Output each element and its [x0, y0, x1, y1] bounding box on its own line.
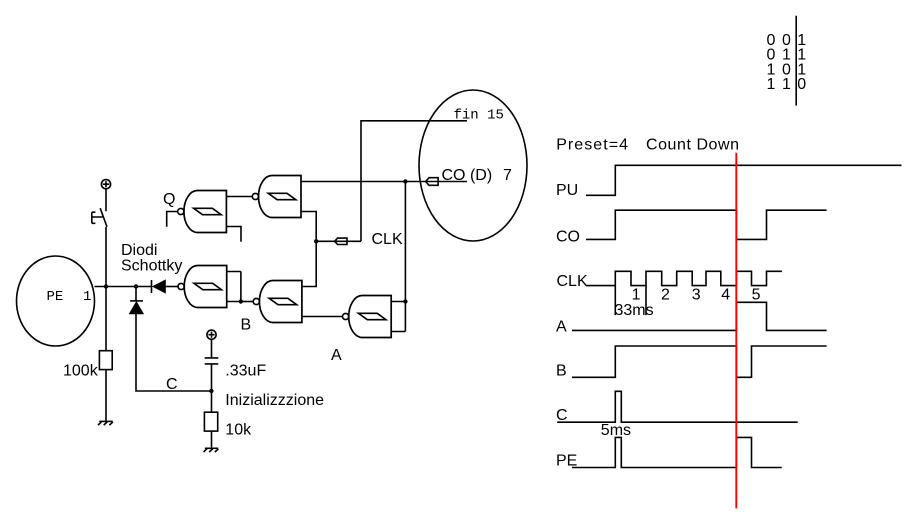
svg-text:100k: 100k	[63, 363, 99, 380]
svg-text:CLK: CLK	[557, 273, 588, 290]
svg-text:1: 1	[782, 76, 791, 93]
resistor R1 100k	[99, 351, 112, 370]
svg-text:Q: Q	[163, 191, 175, 208]
wire CLK node to tag	[316, 240, 361, 242]
svg-text:C: C	[556, 407, 568, 424]
waveform PE	[572, 437, 782, 467]
diode D2 vertical	[130, 287, 144, 314]
wire G5 tie up to CO line	[404, 182, 406, 302]
waveform CO	[586, 210, 827, 239]
junction node at diode branch	[134, 284, 138, 288]
wire G3 input tie bar	[227, 272, 241, 302]
wire CLK up to fin pin	[361, 121, 467, 242]
svg-text:C: C	[166, 376, 178, 393]
wire G3 tie to G4 output	[241, 301, 253, 303]
wire CLK node down to G4 top input	[302, 241, 316, 286]
junction G5 tie	[403, 299, 407, 303]
truth table separator line	[795, 16, 797, 106]
svg-text:1: 1	[83, 289, 91, 305]
wire switch to main node	[105, 227, 107, 287]
waveform A	[572, 302, 827, 330]
wire to resistor 100k	[105, 287, 107, 351]
svg-text:5ms: 5ms	[601, 422, 631, 439]
svg-text:A: A	[556, 319, 567, 336]
wire capacitor to node C and down	[211, 364, 213, 412]
NAND gate G1 (Q gate)	[178, 191, 227, 233]
power symbol VCC2 (circled plus)	[207, 330, 216, 339]
period marker lines 33ms	[615, 286, 646, 316]
svg-text:Inizializzzione: Inizializzzione	[225, 392, 324, 409]
svg-text:PE: PE	[47, 289, 64, 305]
net tag CO	[426, 178, 438, 186]
junction node at switch/main	[104, 284, 108, 288]
capacitor C1 .33uF	[205, 358, 219, 364]
svg-text:4: 4	[721, 287, 730, 304]
svg-text:7: 7	[503, 167, 512, 184]
svg-text:CO: CO	[556, 229, 580, 246]
svg-text:Schottky: Schottky	[121, 257, 182, 274]
svg-text:Preset=4: Preset=4	[556, 137, 629, 154]
svg-text:B: B	[556, 363, 567, 380]
waveform B	[572, 346, 827, 377]
waveform CLK	[586, 271, 782, 285]
svg-text:Count Down: Count Down	[646, 137, 740, 154]
wire resistor to ground	[105, 370, 107, 422]
svg-text:2: 2	[661, 287, 670, 304]
wire G2 bottom input down to CLK node	[301, 212, 316, 242]
wire G1 bottom input hook	[226, 227, 241, 242]
wire power to switch	[105, 189, 107, 211]
wire G5 input tie bar	[391, 302, 405, 332]
svg-text:PU: PU	[556, 182, 578, 199]
junction G3 tie	[239, 299, 243, 303]
ground GND1	[98, 421, 113, 425]
wire power to capacitor	[211, 339, 213, 357]
svg-text:10k: 10k	[225, 422, 252, 439]
wire D2 down and right to node C	[136, 314, 211, 391]
svg-text:A: A	[331, 347, 342, 364]
svg-text:5: 5	[752, 287, 761, 304]
svg-text:33ms: 33ms	[615, 302, 654, 319]
NAND gate G3 (Schottky input gate)	[178, 266, 227, 308]
wire main horizontal PE node	[95, 286, 152, 288]
svg-text:0: 0	[797, 76, 806, 93]
wire G4 bottom input to G5 output	[302, 316, 343, 318]
connector ellipse PE (pin bubble)	[17, 256, 95, 346]
power symbol VCC1 (circled plus)	[101, 180, 110, 189]
wire resistor to ground	[211, 431, 213, 448]
ground GND2	[204, 448, 219, 452]
diode D1 Schottky	[152, 280, 179, 293]
junction CLK	[314, 239, 318, 243]
svg-text:3: 3	[692, 287, 701, 304]
wire CO line from G2 top input	[301, 181, 467, 183]
NAND gate G5 (A gate)	[343, 296, 392, 338]
resistor R2 10k	[204, 412, 217, 431]
svg-text:CLK: CLK	[372, 231, 403, 248]
waveform PU	[586, 165, 902, 195]
junction CO/G5	[403, 179, 407, 183]
NAND gate G2	[252, 176, 301, 218]
junction node C	[209, 389, 213, 393]
NAND gate G4 (B gate)	[253, 281, 302, 323]
IC ellipse (counter outline)	[419, 90, 527, 241]
svg-text:.33uF: .33uF	[225, 363, 266, 380]
pushbutton S1	[92, 208, 107, 227]
svg-text:B: B	[241, 317, 252, 334]
waveform C	[557, 391, 798, 422]
net tag CLK	[335, 238, 347, 244]
red cursor line	[735, 153, 737, 509]
wire G1 top input to G2 output	[226, 196, 252, 198]
svg-text:1: 1	[767, 76, 776, 93]
wire G1 output stub	[167, 212, 178, 227]
